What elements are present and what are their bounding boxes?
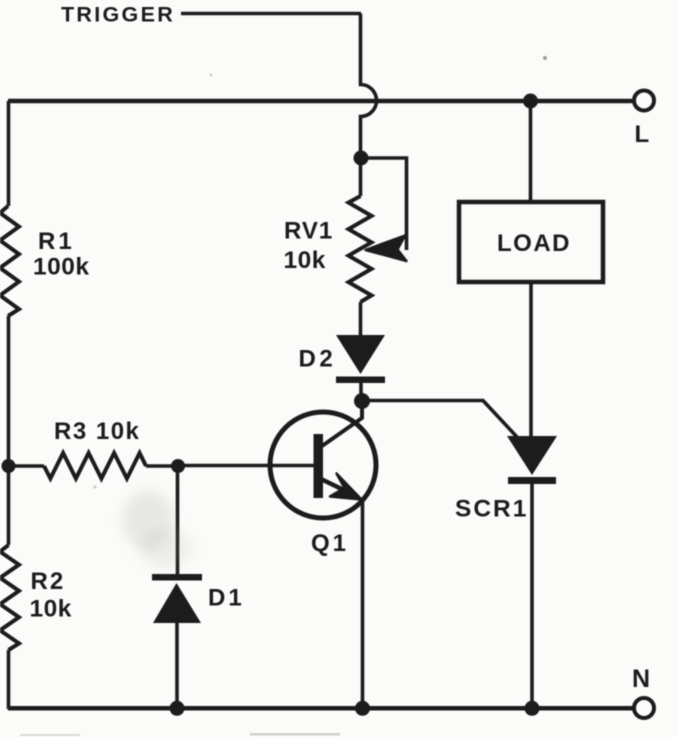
wire: RV1 wiper from node to arrow [361,158,407,250]
wire: D1 bottom to rail [175,622,179,709]
diode D1 cathode bar [152,574,202,581]
RV1 wiper arrowhead [366,236,407,262]
svg-text:10k: 10k [284,247,326,274]
wire: RV1 to D2 [359,302,363,336]
svg-text:N: N [632,665,650,693]
wire: D1 anode node down to bar [176,466,180,576]
junction dot: left rail / R3 node [2,459,16,473]
potentiometer RV1 zigzag [349,196,372,302]
wire: SCR1 cathode to bottom rail [530,483,534,709]
junction dot: D2 cathode / gate / collector node [354,393,370,409]
svg-text:100k: 100k [33,254,90,281]
wire: left rail upper segment [7,101,11,206]
speckle marks [20,56,547,736]
resistor R1 100k zigzag [0,206,19,316]
diode D2 cathode bar [336,377,385,384]
terminal N [634,698,654,718]
wire: D2 to node [359,382,363,401]
svg-text:D2: D2 [299,346,337,373]
SCR1 triangle [507,436,557,475]
Q1 emitter arrowhead [330,474,362,500]
svg-text:D1: D1 [208,585,245,612]
svg-text:TRIGGER: TRIGGER [61,3,175,27]
wire: bottom rail N [8,706,634,711]
wire: L rail to LOAD [529,101,533,202]
SCR1 cathode bar [508,477,556,484]
LOAD box [459,202,603,282]
wire: collector of Q1 up to node [322,401,362,446]
resistor R2 10k zigzag [0,545,19,650]
wire: left rail middle segment [7,316,11,545]
terminal L [634,91,654,111]
transistor Q1 circle [270,412,376,518]
junction dot: emitter on bottom rail [355,701,370,716]
wire: left rail lower segment [7,650,11,709]
svg-text:L: L [635,121,650,148]
Q1 base bar [314,434,324,498]
svg-text:R1: R1 [38,228,75,255]
wire: gate from D2 node to SCR1 [362,401,517,438]
svg-text:R3 10k: R3 10k [54,418,140,445]
junction dot: D1 on bottom rail [170,701,185,716]
svg-text:10k: 10k [30,596,72,623]
svg-text:RV1: RV1 [284,218,333,245]
svg-text:LOAD: LOAD [497,230,571,257]
junction dot: R3 / D1 / base node [171,459,185,473]
Q1 emitter line [322,480,352,495]
smudge artifact left of D1 [123,490,192,568]
svg-text:R2: R2 [31,568,66,595]
wire: base from R3/D1 node to Q1 [178,464,315,468]
wire: LOAD to SCR1 anode [529,282,533,438]
svg-text:Q1: Q1 [311,530,349,557]
resistor R3 10k zigzag [44,453,146,479]
resistor R3 wires [8,464,178,468]
junction dot: L rail to LOAD [523,94,538,109]
wire: trigger vertical with hop over L rail [361,14,377,197]
wire: emitter down to bottom rail [361,499,365,709]
diode D2 triangle [336,335,385,374]
wire: top rail L [8,99,633,104]
svg-text:SCR1: SCR1 [455,496,528,523]
diode D1 triangle [153,583,201,623]
junction dot: SCR1 on bottom rail [525,701,540,716]
wire: TRIGGER lead horizontal [181,12,361,16]
junction dot: trigger/RV1 wiper node [354,151,369,166]
